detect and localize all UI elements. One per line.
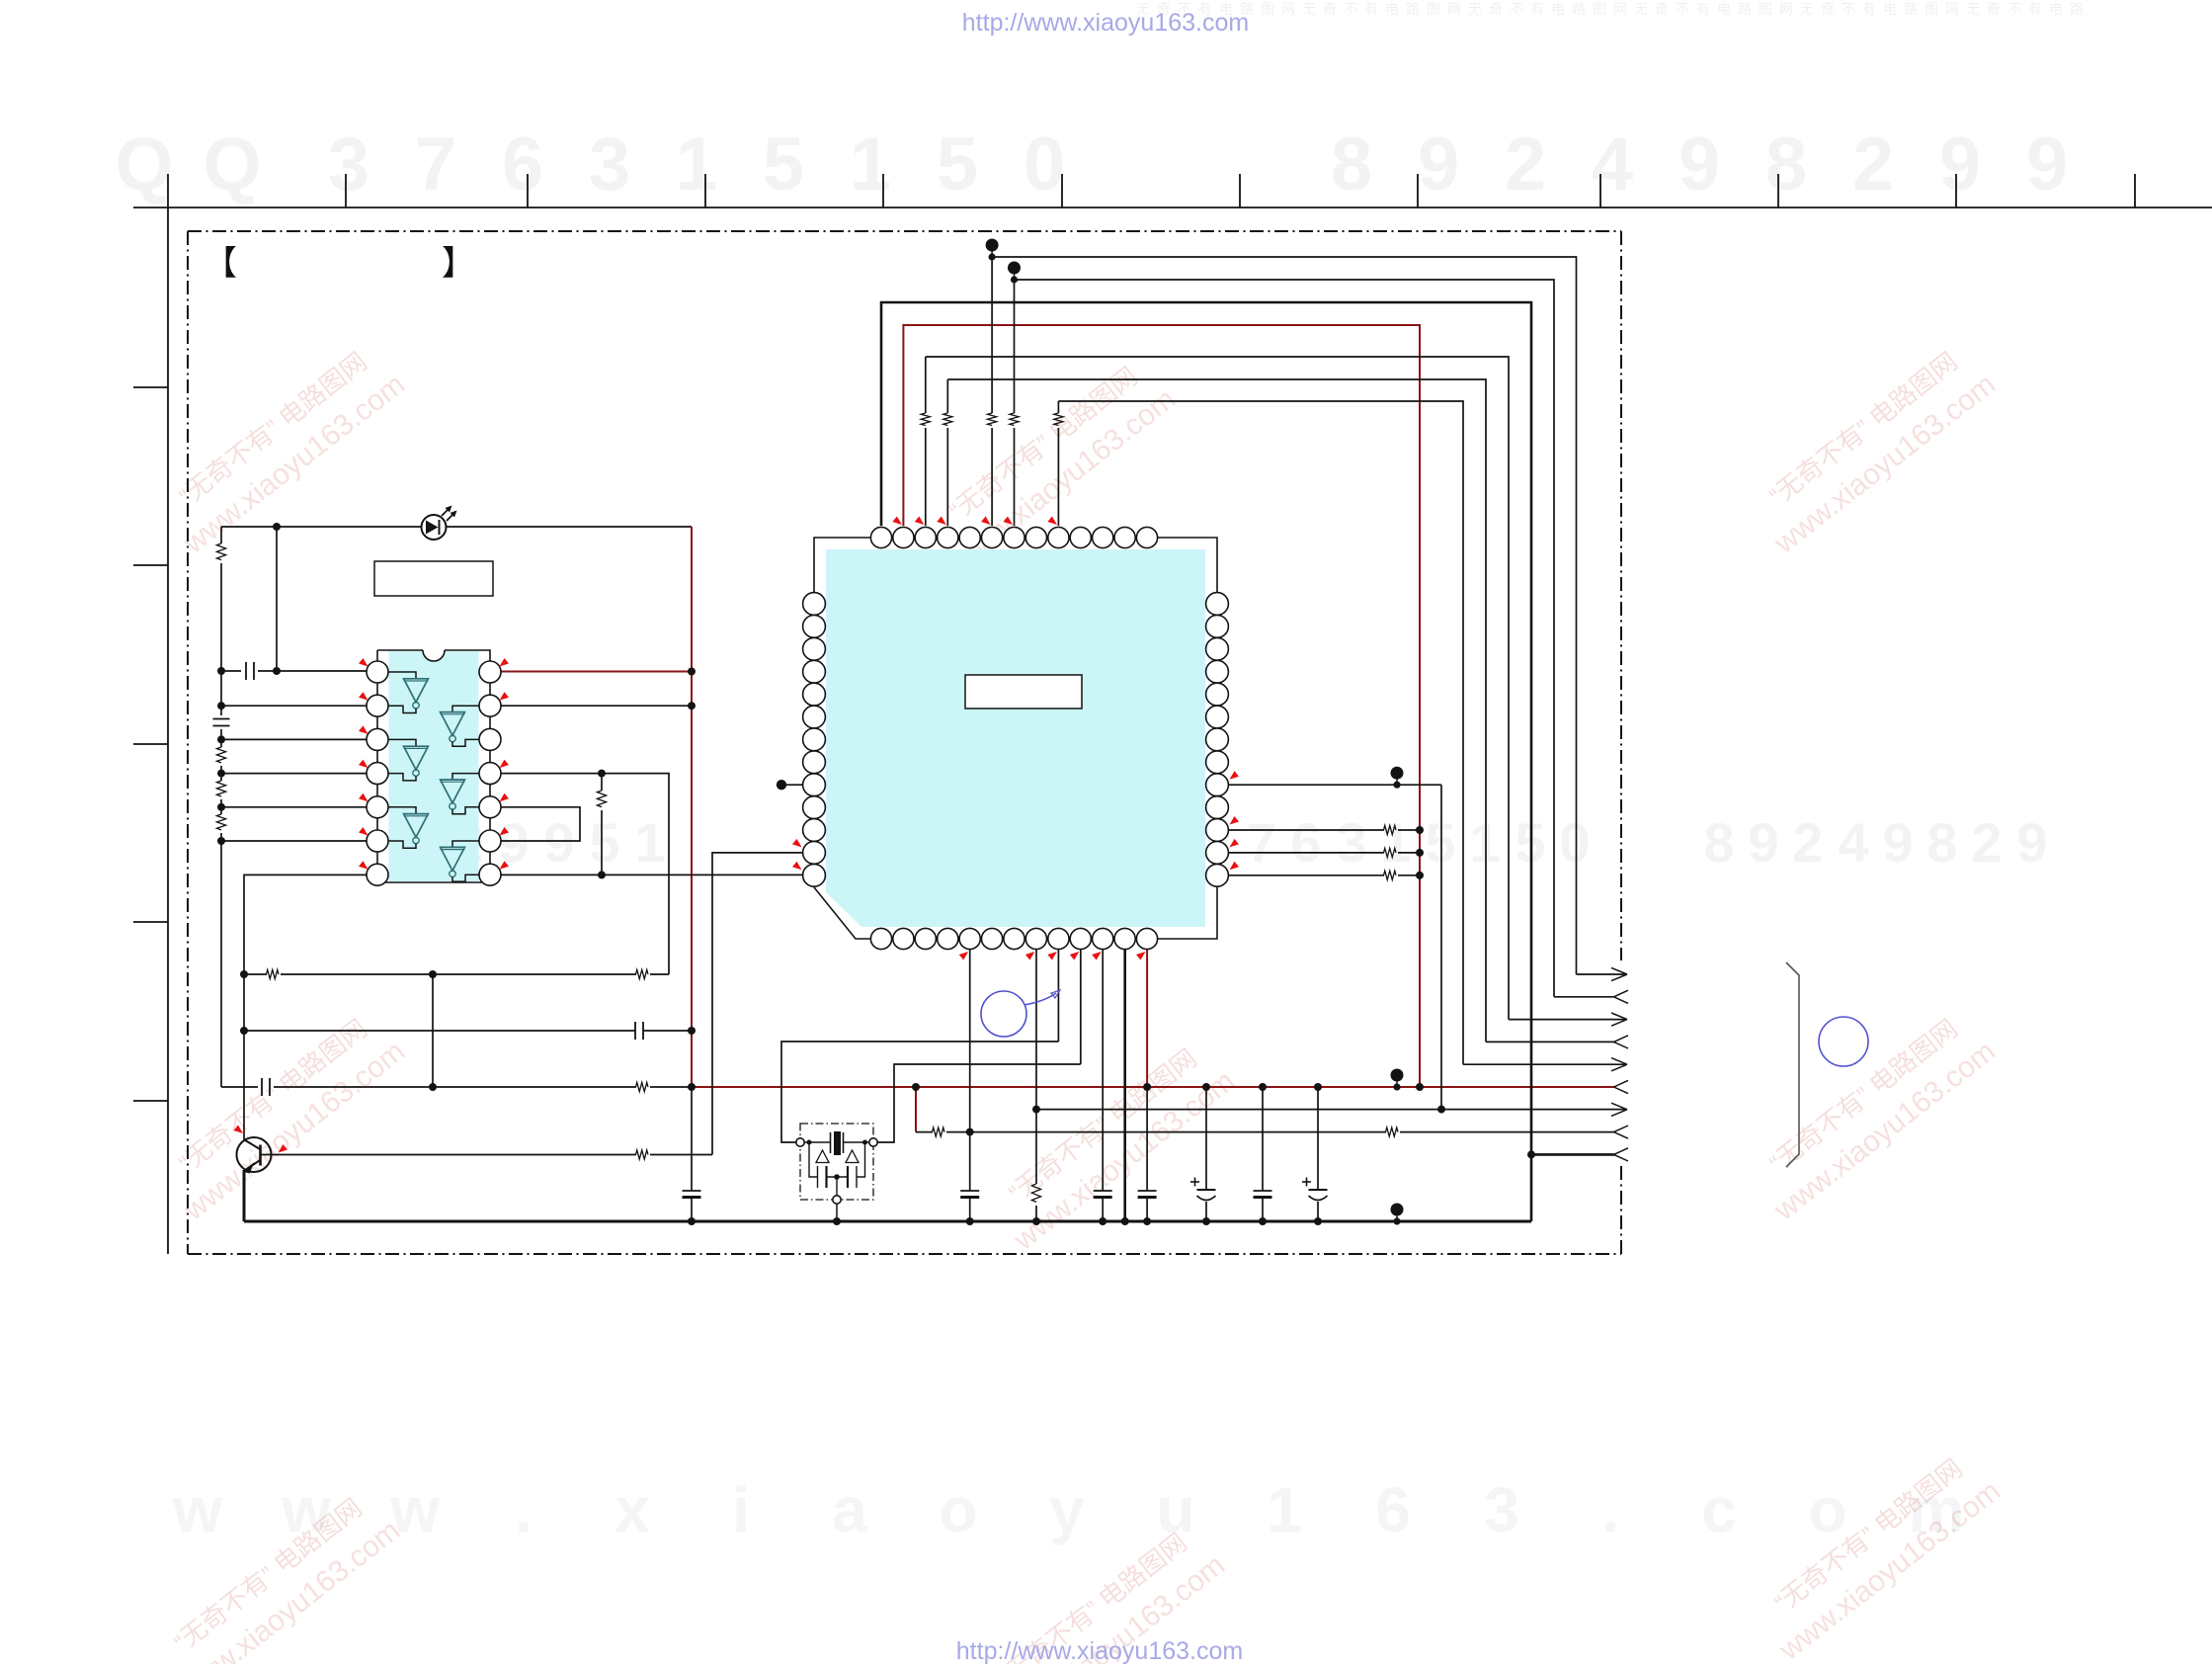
red test arrows U2 bottom pins (959, 952, 969, 960)
watermark faint digit row top (115, 123, 2068, 207)
svg-text:.: . (515, 1474, 533, 1545)
crystal resonator X1 dash-dot box (800, 1124, 873, 1200)
svg-text:1: 1 (634, 811, 665, 874)
svg-text:9: 9 (1418, 123, 1459, 207)
svg-text:1: 1 (1469, 811, 1500, 874)
red test arrows hex left pins (359, 658, 369, 667)
inverter gate U1-5 (452, 774, 479, 780)
IC U2 main processor body (826, 549, 1205, 927)
wire arrow row 8 with resistors R7 R8 (916, 1131, 933, 1133)
svg-text:无奇不有电路图网无奇不有电路图网无奇不有电路图网无奇不有电路: 无奇不有电路图网无奇不有电路图网无奇不有电路图网无奇不有电路图网无奇不有电路图网… (1136, 1, 2090, 17)
wire Q1 base (262, 1154, 637, 1156)
svg-text:9: 9 (1882, 811, 1913, 874)
svg-text:c: c (1701, 1474, 1737, 1545)
red test arrows U2 right pins (1230, 771, 1240, 780)
svg-text:9: 9 (2016, 811, 2047, 874)
svg-text:】: 】 (442, 245, 475, 283)
inverter gate U1-3 (388, 807, 416, 814)
IC U1 right pins (479, 661, 501, 683)
wire Q1 emitter to ground (243, 1170, 246, 1221)
test point markers (991, 246, 993, 257)
wire hex pin2 (501, 705, 692, 707)
svg-text:2: 2 (1852, 123, 1894, 207)
svg-text:5: 5 (589, 811, 619, 874)
inverter gate U1-4 (452, 706, 479, 711)
svg-text:7: 7 (415, 123, 456, 207)
wire stub to cap C1 (276, 527, 278, 671)
resistor R3 left column (220, 774, 222, 781)
electrolytic capacitor C8 red rail to ground (1205, 1087, 1207, 1190)
IC U1 notch (423, 650, 445, 661)
IC U1 part label box (374, 561, 493, 596)
watermark faint digit row middle (407, 811, 2047, 874)
red rail vertical (691, 527, 693, 1087)
wire arrow row 7 from U2 pin8 (1036, 1109, 1627, 1111)
IC U2 part label box (965, 675, 1082, 709)
svg-text:6: 6 (502, 123, 543, 207)
svg-text:o: o (939, 1474, 977, 1545)
wire hex pin4 from column (221, 773, 388, 775)
wire net A horizontal (244, 973, 267, 975)
connector arrow head row 1 outgoing (1611, 967, 1627, 974)
wire top bus from U2 top pin7 with resistor R12 (1014, 428, 1016, 526)
wire U2 right pin9 to connector riser (1228, 784, 1441, 786)
svg-text:9: 9 (1748, 811, 1778, 874)
blue circle annotation right (1819, 1017, 1868, 1066)
IC U2 bottom pins (870, 928, 891, 949)
svg-text:2: 2 (1971, 811, 2002, 874)
capacitor C2 in left column (220, 706, 222, 715)
svg-text:7: 7 (1246, 811, 1276, 874)
wire top bus from U2 top pin1 thick (881, 302, 1531, 1221)
svg-text:a: a (832, 1474, 867, 1545)
wire U2 right pin13 with resistor R16 to red bus (1228, 875, 1384, 876)
connector arrow head row 2 incoming (1614, 990, 1629, 997)
svg-text:9: 9 (2026, 123, 2068, 207)
svg-text:1: 1 (1380, 811, 1411, 874)
wire U2 bottom pin11 with capacitor C6 to ground (1102, 950, 1104, 1191)
capacitor C11 net C to ground (691, 1087, 693, 1191)
svg-text:6: 6 (1290, 811, 1321, 874)
IC U2 left pins (803, 593, 826, 616)
capacitor C1 series (221, 670, 241, 672)
ruler vertical line (167, 174, 169, 1254)
IC U2 top pins (870, 527, 891, 547)
wire Q1 base riser to IC U2 pin (712, 853, 803, 1155)
transistor Q1 red arrows (234, 1126, 244, 1134)
LED D1 (422, 515, 447, 540)
crystal X1 internals (804, 1141, 830, 1143)
svg-text:o: o (1808, 1474, 1846, 1545)
blue balloon annotation near U2 bottom (981, 991, 1026, 1037)
svg-text:w: w (172, 1474, 222, 1545)
wire U2 bottom pin5 with capacitor C5 to ground (969, 950, 971, 1191)
red rail horizontal to connector (692, 1086, 1614, 1088)
wire hex pin7 to lower-left vertical (244, 875, 388, 1139)
wire crystal ground leg (836, 1204, 838, 1221)
svg-text:3: 3 (1484, 1474, 1519, 1545)
wire U2 left pin13 to hex pin7 (501, 874, 803, 876)
wire crystal right to IC U2 pin10 bottom (877, 1064, 1081, 1142)
svg-text:3: 3 (1336, 811, 1366, 874)
red test arrows U2 top pins (892, 517, 902, 526)
svg-text:9: 9 (543, 811, 574, 874)
wire U2 bottom pin10 drop (1080, 950, 1082, 1064)
wire net C horizontal with capacitor C4 (221, 1086, 258, 1088)
connector arrow head row 8 incoming (1614, 1126, 1629, 1132)
crystal X1 terminals (796, 1138, 804, 1146)
svg-text:5: 5 (937, 123, 978, 207)
inverter gate U1-2 (388, 739, 416, 746)
wire left column down to cap net (220, 841, 222, 1087)
ruler ticks top (345, 174, 347, 208)
svg-text:9: 9 (1679, 123, 1720, 207)
svg-text:8: 8 (1765, 123, 1807, 207)
wire hex pin3 (221, 738, 388, 740)
wire top bus from U2 top pin9 with resistor R13 (1057, 428, 1059, 526)
red wire top bus from U2 top pin2 (903, 325, 1420, 1087)
red wire hex pin1 output (501, 671, 692, 673)
svg-text:3: 3 (589, 123, 630, 207)
inverter gate U1-6 (452, 841, 479, 847)
svg-text:0: 0 (1024, 123, 1065, 207)
resistor R4 left column (220, 807, 222, 814)
svg-text:8: 8 (1703, 811, 1734, 874)
svg-text:2: 2 (1792, 811, 1823, 874)
svg-text:http://www.xiaoyu163.com: http://www.xiaoyu163.com (962, 9, 1249, 37)
connector arrow head row 5 outgoing (1611, 1058, 1627, 1065)
watermark large gray www.xiaoyu163.com bottom (172, 1474, 1964, 1545)
svg-text:x: x (614, 1474, 650, 1545)
svg-text:Q: Q (203, 123, 261, 207)
svg-text:5: 5 (763, 123, 804, 207)
svg-text:0: 0 (1559, 811, 1590, 874)
connector arrow head row 7 outgoing (1611, 1103, 1627, 1110)
connector arrow head row 4 incoming (1614, 1036, 1629, 1043)
IC U2 right pins (1206, 593, 1229, 616)
capacitor C7 red rail to ground (1146, 1087, 1148, 1191)
svg-text:Q: Q (115, 123, 173, 207)
wire VCC top rail with LED (221, 526, 692, 528)
IC U1 hex inverter body (389, 651, 479, 881)
wire net A drop to cap net (432, 974, 434, 1087)
connector group bracket (1786, 962, 1799, 1167)
ground rail thick (244, 1220, 1531, 1223)
svg-text:y: y (1049, 1474, 1085, 1545)
dash-dot border of board section (188, 230, 1621, 232)
wire top bus from U2 top pin3 with resistor R9 (925, 428, 927, 526)
wire crystal left to IC U2 pin9 bottom (781, 1042, 1058, 1142)
wire U2 right pin12 with resistor R15 to red bus (1228, 852, 1384, 854)
wire U2 right pin11 with resistor R14 to red bus (1228, 829, 1384, 831)
svg-text:8: 8 (1926, 811, 1957, 874)
svg-text:1: 1 (1267, 1474, 1302, 1545)
resistor R1 in left rail (220, 527, 222, 543)
wire arrow row 9 thick (1531, 1153, 1614, 1156)
svg-text:4: 4 (1838, 811, 1868, 874)
connector arrows right edge (1577, 973, 1628, 975)
red test arrows hex right pins (500, 658, 510, 667)
svg-text:.: . (1601, 1474, 1619, 1545)
junction dots (273, 523, 281, 531)
ruler horizontal line (133, 207, 2212, 209)
resistor R2 left column (220, 739, 222, 747)
svg-text:http://www.xiaoyu163.com: http://www.xiaoyu163.com (956, 1637, 1243, 1664)
svg-text:2: 2 (1505, 123, 1546, 207)
watermark pink diagonal blocks (153, 337, 411, 561)
svg-text:【: 【 (204, 245, 237, 283)
wire hex pin4 loop to node (501, 774, 669, 974)
wire hex pin6 from column (221, 840, 388, 842)
wire top bus from U2 top pin4 with resistor R10 (946, 428, 948, 526)
inverter gate U1-1 (388, 672, 416, 679)
svg-text:5: 5 (1425, 811, 1455, 874)
connector arrow head row 9 incoming (1614, 1148, 1629, 1155)
wire U2 bottom pin8 with resistor R6 to ground (1035, 950, 1037, 1184)
wire left column to hex pins (220, 671, 222, 706)
svg-text:9: 9 (1939, 123, 1981, 207)
transistor Q1 (237, 1137, 272, 1172)
svg-text:1: 1 (676, 123, 717, 207)
capacitor C9 red rail to ground (1262, 1087, 1264, 1191)
wire hex pin5 from column (221, 806, 388, 808)
svg-text:i: i (732, 1474, 750, 1545)
wire top bus from U2 top pin6 with resistor R11 (991, 428, 993, 526)
ruler ticks left (133, 386, 168, 388)
connector arrow head row 3 outgoing (1611, 1013, 1627, 1020)
connector arrow head row 6 incoming (1614, 1080, 1629, 1087)
electrolytic capacitor C10 red rail to ground (1317, 1087, 1319, 1190)
wire hex pin5-pin6 jumper (501, 807, 580, 841)
red wire U2 bottom pin13 to red rail (1146, 950, 1148, 1087)
red stub from red rail to row 8 (915, 1087, 917, 1132)
red test arrows U2 left pins (792, 839, 802, 848)
IC U1 left pins (367, 661, 388, 683)
wire U2 bottom pin12 thick to ground (1123, 950, 1126, 1221)
svg-text:3: 3 (328, 123, 369, 207)
svg-text:8: 8 (1331, 123, 1372, 207)
svg-text:4: 4 (1592, 123, 1633, 207)
wire U2 left pin9 stub terminal (786, 784, 803, 786)
svg-text:1: 1 (850, 123, 891, 207)
wire net B horizontal with capacitor C3 (244, 1030, 635, 1032)
svg-text:6: 6 (1375, 1474, 1411, 1545)
wire U2 bottom pin9 drop (1057, 950, 1059, 1042)
resistor R5 between hex pin4 and pin7 nets (601, 774, 603, 791)
